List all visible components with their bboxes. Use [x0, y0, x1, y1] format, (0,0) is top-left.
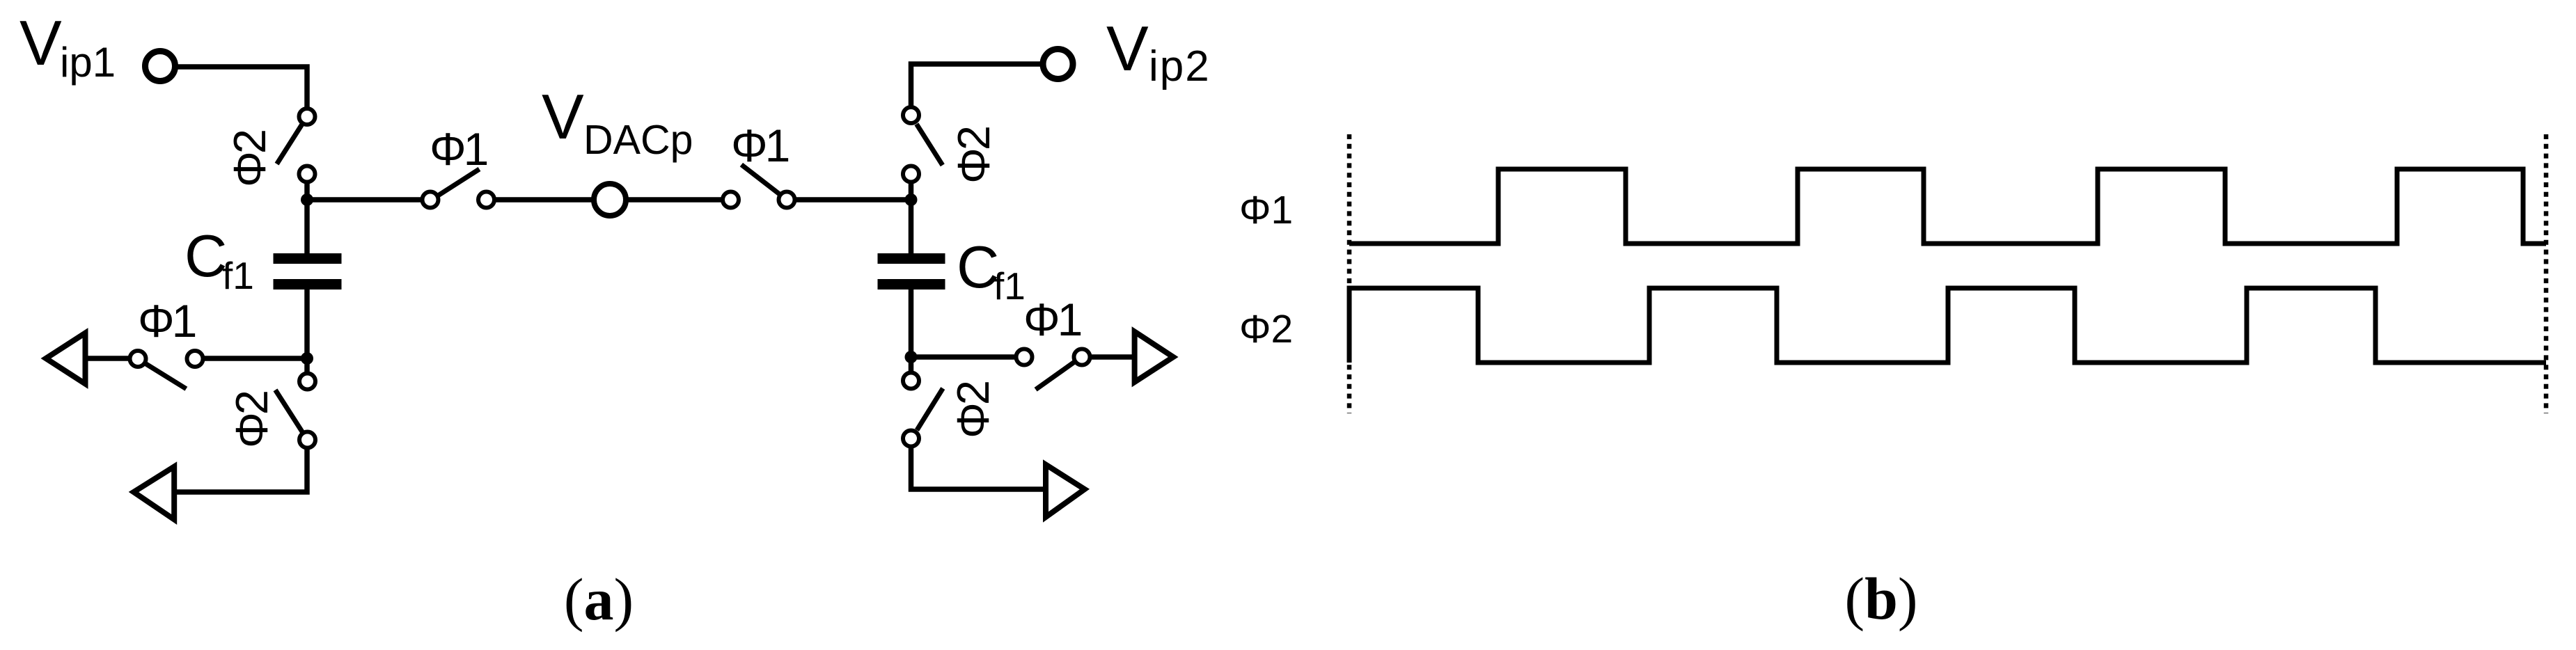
node B junction dot: [905, 193, 918, 206]
wire top-right corner to Vip2 terminal: [911, 64, 1043, 109]
wire capacitor C1 to bottom node C: [304, 288, 310, 358]
wire node D right to phi1 switch: [911, 354, 1017, 360]
dotted start line: [1347, 134, 1352, 413]
wire bottom-left phi2 switch down and left to triangle T2: [174, 440, 307, 492]
svg-text:Φ1: Φ1: [138, 295, 196, 347]
svg-text:DACp: DACp: [583, 117, 693, 163]
switch blades: [145, 124, 1074, 431]
wire node D down to phi2 contact: [909, 357, 914, 381]
svg-text:V: V: [19, 8, 62, 79]
switch S6 blade (phi2 top-right): [916, 124, 942, 165]
wire Vip1 terminal to top-left corner and down: [175, 67, 307, 109]
switch S1 contacts: [299, 109, 315, 125]
switch S7 blade (phi1 bottom-right): [1036, 362, 1074, 389]
svg-text:(a): (a): [564, 566, 634, 633]
wire node A rail left junction to switch phi1: [307, 197, 423, 203]
switch S3 blade (phi2 bottom-left): [276, 390, 303, 431]
wire bottom-right phi2 switch down and right to triangle T4: [911, 438, 1046, 489]
switch S8 blade (phi2 bottom-right): [917, 388, 943, 430]
svg-text:Φ1: Φ1: [430, 123, 487, 175]
wire VDACp to right phi1 switch: [626, 197, 724, 203]
switch S8 contacts: [903, 373, 919, 389]
svg-text:Φ1: Φ1: [731, 120, 789, 171]
svg-text:Φ2: Φ2: [226, 392, 277, 448]
triangle T4 (out right bottom): [1046, 465, 1085, 518]
svg-text:f1: f1: [994, 264, 1026, 308]
wire capacitor C2 to bottom node D: [909, 288, 914, 357]
waveform phi2: [1349, 288, 2546, 363]
wire node B up through phi2 contacts: [909, 174, 914, 200]
switch S4 contacts: [423, 192, 439, 208]
wire node C down to phi2 contact: [304, 358, 310, 381]
svg-text:ip2: ip2: [1149, 42, 1211, 90]
waveform phi1: [1349, 169, 2546, 244]
triangle T2 (out left bottom): [134, 467, 174, 520]
terminal Vip1: [146, 51, 175, 81]
triangle T3 (out right top): [1135, 332, 1174, 383]
svg-text:Φ2: Φ2: [948, 382, 998, 438]
switch S5 contacts: [723, 192, 739, 208]
wire node A to phi2 contacts above: [304, 174, 310, 200]
wire phi1 switch to triangle T1: [86, 356, 131, 361]
switch S4 blade (phi1 mid-left): [439, 169, 480, 196]
svg-text:V: V: [1106, 14, 1149, 84]
wire phi1 switch to triangle T3: [1089, 354, 1135, 360]
node C junction dot: [301, 352, 313, 365]
contact circles: [130, 107, 1090, 448]
svg-text:Φ2: Φ2: [1239, 307, 1293, 351]
svg-text:Φ1: Φ1: [1023, 294, 1081, 345]
switch S3 contacts: [299, 374, 315, 390]
svg-text:ip1: ip1: [60, 39, 116, 86]
svg-text:Φ1: Φ1: [1239, 188, 1293, 232]
svg-text:(b): (b): [1844, 565, 1917, 632]
node D junction dot: [905, 351, 918, 363]
wire node B down to capacitor C2: [909, 200, 914, 255]
switch S2 contacts: [130, 351, 146, 367]
terminal Vip2: [1043, 49, 1073, 79]
svg-text:V: V: [542, 82, 584, 152]
switch S6 contacts: [903, 107, 919, 123]
switch S7 contacts: [1016, 349, 1032, 365]
wire node A down to capacitor C1: [304, 200, 310, 255]
wire right phi1 switch to node B: [794, 197, 911, 203]
wire switch phi1 to VDACp: [494, 197, 595, 203]
node A junction dot: [301, 193, 313, 206]
svg-text:Φ2: Φ2: [224, 131, 275, 187]
triangle T1 (out left top): [46, 333, 86, 384]
switch S5 blade (phi1 mid-right): [741, 165, 779, 194]
switch S2 blade (phi1 bottom-left): [145, 363, 187, 389]
wire node C left to phi1 switch: [203, 356, 307, 361]
capacitor C1 plates: [274, 253, 342, 290]
svg-text:f1: f1: [222, 254, 254, 297]
switch S1 blade (phi2 top-left): [277, 125, 302, 164]
terminal VDACp: [594, 184, 626, 216]
svg-text:C: C: [184, 223, 227, 290]
svg-text:Φ2: Φ2: [948, 127, 999, 184]
dotted end line: [2544, 134, 2549, 413]
capacitor C2 plates: [878, 253, 945, 290]
